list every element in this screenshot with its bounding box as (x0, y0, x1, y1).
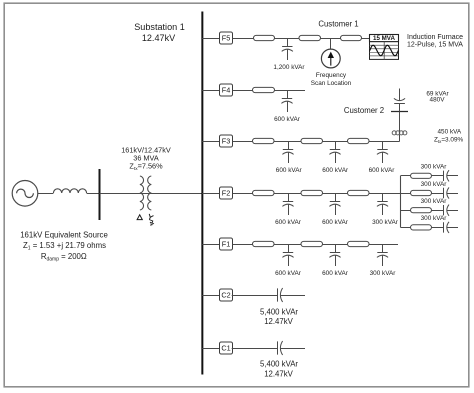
capacitor C F3-3 600kVAr (377, 141, 388, 163)
wire branch 4 (401, 227, 411, 229)
svg-text:Frequency: Frequency (316, 72, 347, 79)
capacitor 69kVAr (customer 2) (394, 89, 405, 112)
svg-text:300 kVAr: 300 kVAr (372, 219, 399, 226)
line segment F2-1 (253, 190, 275, 195)
capacitor C F2-1 600kVAr (282, 193, 293, 215)
wire (432, 175, 444, 177)
svg-text:F2: F2 (222, 189, 231, 198)
line segment F1-3 (348, 241, 370, 246)
svg-text:C1: C1 (221, 344, 230, 353)
svg-text:12.47kV: 12.47kV (264, 369, 293, 378)
wye winding symbol with ground (145, 214, 156, 227)
svg-text:12.47kV: 12.47kV (142, 33, 176, 43)
line segment branch 3 (411, 208, 432, 213)
wire bus to breaker F2 (202, 193, 219, 195)
capacitor C F5 1200kVAr (282, 38, 293, 60)
wire to capacitor manifold (369, 193, 401, 195)
line segment F3-3 (348, 138, 370, 143)
inductor L1 (source impedance) (53, 189, 86, 193)
wire (274, 193, 301, 195)
svg-text:F3: F3 (222, 137, 231, 146)
wire (432, 227, 444, 229)
svg-text:300 kVAr: 300 kVAr (421, 215, 448, 222)
label C2 bank (260, 307, 298, 326)
line segment branch 4 (411, 225, 432, 230)
svg-text:Induction Furnace: Induction Furnace (407, 34, 463, 41)
svg-text:600 kVAr: 600 kVAr (275, 270, 302, 277)
wire F1 end (369, 244, 398, 246)
capacitor C2 5400kVAr (278, 288, 306, 302)
capacitor C F4 600kVAr (281, 90, 292, 112)
frequency scan location probe (321, 38, 340, 68)
svg-text:Substation 1: Substation 1 (134, 22, 185, 32)
breaker box C2 (220, 289, 233, 301)
capacitor C 300kVAr #2 (444, 187, 459, 198)
svg-text:F4: F4 (222, 86, 231, 95)
wire bus to breaker F4 (202, 90, 219, 92)
svg-text:Scan Location: Scan Location (311, 80, 352, 87)
capacitor C1 5400kVAr (278, 341, 306, 355)
wire bus to breaker F1 (202, 244, 219, 246)
line segment F1-2 (301, 241, 323, 246)
breaker box F4 (220, 84, 233, 96)
capacitor manifold bus (400, 176, 402, 228)
wire bus to breaker F3 (202, 141, 219, 143)
line segment F1-1 (253, 241, 275, 246)
svg-text:300 kVAr: 300 kVAr (421, 198, 448, 205)
label transformer T2 (434, 129, 463, 144)
svg-text:600 kVAr: 600 kVAr (322, 167, 349, 174)
svg-text:5,400 kVAr: 5,400 kVAr (260, 360, 298, 369)
svg-text:600 kVAr: 600 kVAr (274, 116, 301, 123)
480V bus bar (391, 111, 408, 113)
wire F4 (233, 90, 253, 92)
induction furnace load (15 MVA) (370, 35, 399, 60)
svg-text:600 kVAr: 600 kVAr (322, 270, 349, 277)
svg-text:600 kVAr: 600 kVAr (275, 219, 302, 226)
wire branch 3 (401, 210, 411, 212)
line segment F5-3 (341, 35, 362, 40)
line segment F2-3 (348, 190, 370, 195)
svg-text:300 kVAr: 300 kVAr (370, 270, 397, 277)
svg-text:600 kVAr: 600 kVAr (276, 167, 303, 174)
label 69 kVAr 480V (426, 90, 449, 103)
wire source to inductor (38, 193, 54, 195)
svg-text:161kV Equivalent Source: 161kV Equivalent Source (20, 231, 108, 240)
wire (432, 210, 444, 212)
line segment F5-2 (299, 35, 321, 40)
capacitor C 300kVAr #1 (444, 170, 459, 181)
line segment F5-1 (254, 35, 275, 40)
wire F1 (233, 244, 253, 246)
wire bus to breaker F5 (202, 38, 219, 40)
svg-text:1,200 kVAr: 1,200 kVAr (273, 64, 305, 71)
capacitor C F1-3 300kVAr (377, 244, 388, 266)
wire (323, 141, 348, 143)
label transformer T1 (121, 145, 171, 172)
label Substation 1 (134, 22, 185, 43)
svg-text:Customer 2: Customer 2 (344, 106, 384, 115)
breaker box C1 (220, 342, 233, 354)
wire branch 1 (401, 175, 411, 177)
svg-text:300 kVAr: 300 kVAr (421, 181, 448, 188)
wire F4 end (275, 90, 306, 92)
breaker box F5 (220, 32, 233, 44)
svg-text:450 kVA: 450 kVA (438, 129, 462, 136)
svg-text:300 kVAr: 300 kVAr (421, 164, 448, 171)
svg-text:Z1 = 1.53 +j 21.79 ohms: Z1 = 1.53 +j 21.79 ohms (23, 241, 106, 251)
svg-text:C2: C2 (221, 291, 230, 300)
transformer T2 450kVA (coil) (392, 131, 407, 135)
source G1 (161kV equivalent) (12, 181, 38, 207)
capacitor C 300kVAr #4 (444, 222, 459, 233)
svg-text:F1: F1 (222, 240, 231, 249)
wire inductor to 161kV bus (87, 193, 100, 195)
wire (432, 193, 444, 195)
svg-text:5,400 kVAr: 5,400 kVAr (260, 307, 298, 316)
line segment F4-1 (253, 87, 275, 92)
capacitor C F2-3 300kVAr (377, 193, 388, 215)
wire (275, 38, 300, 40)
label induction furnace (407, 34, 463, 49)
161kV bus bar (99, 169, 101, 220)
svg-text:600 kVAr: 600 kVAr (369, 167, 396, 174)
capacitor C F3-2 600kVAr (329, 141, 340, 163)
capacitor C F2-2 600kVAr (329, 193, 340, 215)
line segment F3-1 (253, 138, 275, 143)
main 12.47kV bus (Substation 1) (201, 12, 203, 375)
wire 161kV bus to transformer (100, 193, 141, 195)
svg-text:600 kVAr: 600 kVAr (322, 219, 349, 226)
svg-text:12-Pulse, 15 MVA: 12-Pulse, 15 MVA (407, 42, 463, 49)
wire F2 (233, 193, 253, 195)
wire (321, 38, 341, 40)
wire F3 (233, 141, 253, 143)
wire customer 2 riser (399, 135, 401, 142)
transformer T1 windings 161kV/12.47kV (140, 176, 151, 210)
wire to customer 2 tap (369, 141, 400, 143)
wire (274, 141, 301, 143)
wire bus to breaker C1 (202, 348, 219, 350)
svg-text:480V: 480V (430, 97, 446, 104)
svg-text:F5: F5 (222, 34, 231, 43)
wire (274, 244, 301, 246)
label C1 bank (260, 360, 298, 379)
wire branch 2 (401, 193, 411, 195)
wire transformer to main bus (140, 193, 202, 195)
wire coil to 480V bus (399, 112, 401, 132)
wire F5 (233, 38, 254, 40)
line segment branch 1 (411, 173, 432, 178)
wire C2 (232, 295, 277, 297)
line segment F3-2 (301, 138, 323, 143)
line segment branch 2 (411, 190, 432, 195)
label frequency scan location (311, 72, 352, 87)
capacitor C F3-1 600kVAr (282, 141, 293, 163)
wire bus to breaker C2 (202, 295, 219, 297)
capacitor C F1-2 600kVAr (329, 244, 340, 266)
line segment F2-2 (301, 190, 323, 195)
delta winding symbol (137, 215, 142, 220)
capacitor C 300kVAr #3 (444, 205, 459, 216)
wire C1 (232, 348, 277, 350)
breaker box F2 (220, 187, 233, 199)
wire (323, 244, 348, 246)
wire to furnace (362, 38, 370, 40)
svg-text:15 MVA: 15 MVA (373, 35, 395, 42)
capacitor C F1-1 600kVAr (282, 244, 293, 266)
wire (323, 193, 348, 195)
breaker box F1 (220, 238, 233, 250)
breaker box F3 (220, 135, 233, 147)
svg-text:12.47kV: 12.47kV (264, 317, 293, 326)
label 161kV equivalent source (20, 231, 108, 263)
svg-text:Customer 1: Customer 1 (318, 20, 358, 29)
